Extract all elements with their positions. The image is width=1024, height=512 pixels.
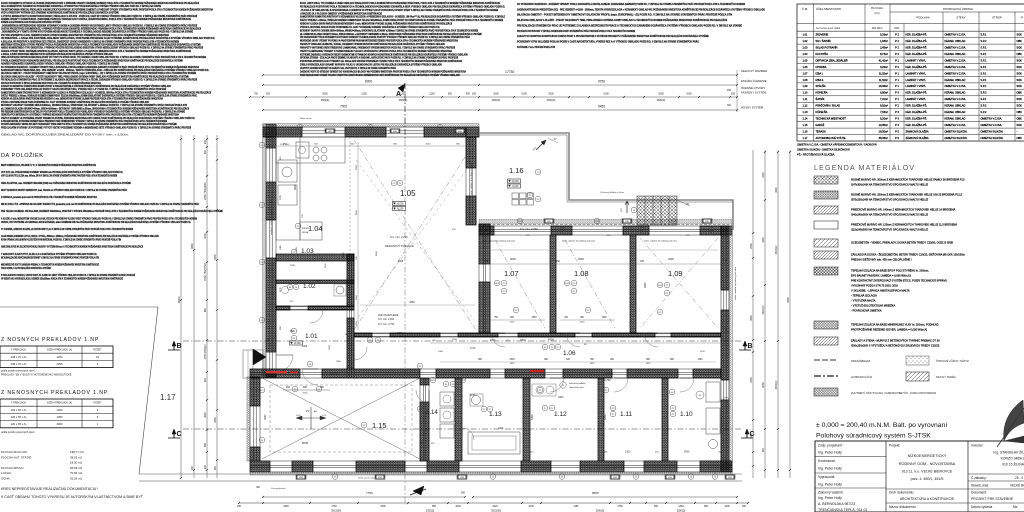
svg-text:OD DIGESTORA - o 125mm PRE ZAU: OD DIGESTORA - o 125mm PRE ZAUSTENIE AXI… — [1, 37, 215, 40]
svg-text:8800: 8800 — [191, 243, 194, 249]
svg-text:LAMINÁT / VINYL: LAMINÁT / VINYL — [906, 71, 927, 75]
svg-text:200: 200 — [266, 338, 271, 341]
svg-text:1.02: 1.02 — [303, 283, 316, 290]
svg-text:PODROBNY VYPIS SKLADIEB PODLAH: PODROBNY VYPIS SKLADIEB PODLAH POZRI V C… — [1, 88, 166, 91]
svg-text:VNE TELESO SCHIEDEL UNI Plus #: VNE TELESO SCHIEDEL UNI Plus #200, ROZME… — [1, 210, 223, 213]
svg-text:S.P.1: S.P.1 — [981, 78, 987, 82]
svg-text:238 x 70 x A): 238 x 70 x A) — [11, 362, 27, 366]
svg-text:198,77 m2: 198,77 m2 — [70, 450, 84, 454]
svg-text:S.V. min. 2,750: S.V. min. 2,750 — [390, 235, 408, 239]
svg-text:+0,000: +0,000 — [293, 343, 301, 345]
svg-text:2,05: 2,05 — [621, 207, 623, 212]
svg-text:200: 200 — [727, 89, 732, 92]
svg-text:3250: 3250 — [604, 414, 607, 420]
svg-text:OCEĽOBETÓN - VENIEC, PREKLADY,: OCEĽOBETÓN - VENIEC, PREKLADY, DOSKA BET… — [851, 240, 953, 245]
svg-text:1.08: 1.08 — [803, 78, 809, 82]
svg-text:S.P.1: S.P.1 — [981, 33, 987, 37]
svg-text:3200: 3200 — [668, 257, 674, 261]
svg-text:905: 905 — [280, 156, 282, 160]
svg-text:CISLO 021054, 1 Ks PRI REALIZÁ: CISLO 021054, 1 Ks PRI REALIZÁCII DODÁVA… — [1, 267, 51, 270]
svg-text:4300: 4300 — [548, 338, 554, 342]
svg-text:SVETLY PRIEREZ o 200mm, VONKAJ: SVETLY PRIEREZ o 200mm, VONKAJSI ROZMER … — [300, 19, 503, 22]
svg-text:SOK: SOK — [1017, 65, 1023, 69]
svg-text:STROP: STROP — [992, 16, 1002, 20]
svg-text:WC / ŠATNÍK: WC / ŠATNÍK — [816, 38, 832, 43]
svg-text:E CERPADLO, parametre pozri ca: E CERPADLO, parametre pozri cast UK PROF… — [1, 196, 97, 199]
svg-text:750: 750 — [494, 317, 499, 319]
svg-text:AUTOMOBILOVÉ STÁTIE: AUTOMOBILOVÉ STÁTIE — [816, 135, 846, 140]
svg-text:Ing. STANISLAV ŽIL: Ing. STANISLAV ŽIL — [993, 450, 1024, 455]
svg-text:K4: K4 — [671, 392, 674, 394]
svg-text:SOK: SOK — [1017, 45, 1023, 49]
svg-text:P9: P9 — [529, 195, 532, 197]
svg-text:S.P.1: S.P.1 — [981, 52, 987, 56]
svg-text:VANA PLASTOVA, max. ROZMERY 80: VANA PLASTOVA, max. ROZMERY 800x1800 (16… — [1, 182, 131, 185]
svg-text:56,53 m2: 56,53 m2 — [70, 466, 82, 470]
svg-text:VSETKY KLAMPIARSKE VYROBKY Z P: VSETKY KLAMPIARSKE VYROBKY Z POZINKOVANE… — [300, 50, 452, 53]
svg-text:PRI PRACI POSTUPOVAT V ZMYSLE: PRI PRACI POSTUPOVAT V ZMYSLE DODRZANIA … — [517, 30, 635, 33]
svg-text:1150: 1150 — [700, 351, 705, 353]
svg-text:4850: 4850 — [409, 301, 415, 304]
svg-text:580: 580 — [204, 442, 207, 447]
svg-text:900: 900 — [646, 359, 651, 361]
svg-text:955: 955 — [456, 144, 460, 146]
svg-text:ZÁKLADOVÁ DOSKA - ŽELEZOBETÓN,: ZÁKLADOVÁ DOSKA - ŽELEZOBETÓN, BETÓN TRI… — [851, 252, 965, 257]
svg-text:OMIETKA V.C./SA.: OMIETKA V.C./SA. — [945, 33, 967, 37]
svg-text:5,26m²: 5,26m² — [880, 33, 888, 37]
svg-text:1.12: 1.12 — [803, 104, 809, 108]
svg-text:SOK: SOK — [1017, 123, 1023, 127]
svg-text:70,84 m2: 70,84 m2 — [70, 471, 82, 475]
svg-text:700: 700 — [356, 256, 358, 260]
svg-text:VODY A PRESTUPY POTRUBI CEZ ST: VODY A PRESTUPY POTRUBI CEZ STAVEBNE KON… — [1, 12, 119, 15]
svg-text:PRIEČKOVÉ MURIVO HR. 115mm Z K: PRIEČKOVÉ MURIVO HR. 115mm Z KERAMICKÝCH… — [851, 222, 957, 227]
svg-text:(nahukové podlaha): (nahukové podlaha) — [569, 383, 586, 385]
svg-text:1000: 1000 — [455, 505, 461, 508]
svg-text:OBKLAD KUPELNE DOPORUCUJEM ZRE: OBKLAD KUPELNE DOPORUCUJEM ZREALIZOVAT D… — [1, 56, 206, 59]
svg-text:K2: K2 — [539, 390, 542, 392]
svg-text:GB: GB — [345, 334, 349, 336]
svg-text:25 - 0: 25 - 0 — [1015, 476, 1023, 480]
svg-text:2020: 2020 — [510, 363, 515, 365]
svg-text:BERIT COMBIFIX ECO, WC+BIDET 2: BERIT COMBIFIX ECO, WC+BIDET 2 V 1 A TEC… — [1, 164, 96, 167]
svg-text:800: 800 — [704, 505, 709, 508]
svg-text:DĹŽKA PREKLADU (A): DĹŽKA PREKLADU (A) — [47, 402, 72, 405]
svg-text:/375x250x249/ NA TENKOVRSTVÚ S: /375x250x249/ NA TENKOVRSTVÚ SPOJOVACIU … — [851, 197, 929, 202]
svg-text:3000: 3000 — [510, 257, 516, 261]
svg-text:1.10: 1.10 — [680, 411, 693, 418]
svg-text:2500: 2500 — [509, 359, 515, 361]
svg-text:POUZITE MATERIALY MUSIA SPLNAT: POUZITE MATERIALY MUSIA SPLNAT POZIADAVK… — [1, 123, 177, 126]
svg-text:elektr. radiátor do podlahy po: elektr. radiátor do podlahy pod okna — [470, 162, 473, 195]
svg-text:KP6: KP6 — [658, 285, 663, 287]
svg-text:1.12: 1.12 — [554, 411, 567, 418]
svg-text:P 5: P 5 — [895, 129, 899, 133]
svg-text:600: 600 — [566, 359, 571, 361]
svg-text:1,0%: 1,0% — [296, 415, 301, 417]
svg-text:2020: 2020 — [426, 144, 432, 146]
svg-text:OBÝVACIA IZBA_JEDÁLEŇ: OBÝVACIA IZBA_JEDÁLEŇ — [816, 58, 848, 62]
svg-text:2935: 2935 — [290, 265, 296, 267]
svg-text:KÚPEĽŇA: KÚPEĽŇA — [816, 90, 828, 95]
svg-text:200: 200 — [731, 93, 736, 96]
svg-text:PROTIPOŽIARNE RIEŠENIE ISOVER,: PROTIPOŽIARNE RIEŠENIE ISOVER, LAMBDA = … — [851, 327, 927, 332]
svg-text:P 2: P 2 — [895, 104, 899, 108]
svg-text:Ý PREKLADU: Ý PREKLADU — [11, 349, 26, 352]
svg-text:STENY: STENY — [956, 16, 965, 20]
svg-text:OBK: OBK — [1017, 110, 1023, 114]
svg-text:P2: P2 — [612, 408, 615, 410]
svg-text:4100: 4100 — [762, 237, 765, 243]
svg-text:2500: 2500 — [380, 505, 386, 508]
svg-text:OBK: OBK — [1017, 117, 1023, 121]
svg-text:OMIETKA V.C./SA.: OMIETKA V.C./SA. — [981, 123, 1003, 127]
svg-text:1920: 1920 — [492, 505, 498, 508]
svg-text:Názov dokumentu :: Názov dokumentu : — [889, 505, 917, 509]
svg-text:KOTVENIE ZABRADLI A DRZIAKOV R: KOTVENIE ZABRADLI A DRZIAKOV RIESIT CHEM… — [300, 53, 468, 56]
svg-text:PLOCHA-AUT. STÁTIE:: PLOCHA-AUT. STÁTIE: — [1, 455, 32, 459]
svg-text:-Úrovný dosiahn: -Úrovný dosiahn — [271, 487, 286, 490]
svg-text:OMIETKA V.C./SA.: OMIETKA V.C./SA. — [945, 123, 967, 127]
svg-text:500: 500 — [204, 377, 207, 382]
svg-text:1.11: 1.11 — [620, 411, 633, 418]
svg-text:9500: 9500 — [787, 297, 790, 303]
svg-text:PROJEKT PRE STAVEBNÉ: PROJEKT PRE STAVEBNÉ — [971, 496, 1014, 501]
svg-text:1.10: 1.10 — [803, 91, 809, 95]
svg-text:otočkový radiátor do podlahy p: otočkový radiátor do podlahy pod okno — [270, 198, 273, 235]
svg-text:OCHA:: OCHA: — [1, 477, 10, 481]
svg-text:PREKLADY "ZB x" BUDÚ VYHOTOVEN: PREKLADY "ZB x" BUDÚ VYHOTOVENÉ AKO MONO… — [1, 374, 72, 377]
svg-text:13: 13 — [561, 476, 564, 478]
svg-text:KP3: KP3 — [431, 380, 436, 382]
svg-text:SAMOSTATNY KOMIN TROJVRSTVOVY: SAMOSTATNY KOMIN TROJVRSTVOVY S KERAMICK… — [1, 91, 211, 94]
svg-text:OMIETKA SILIKÓN.: OMIETKA SILIKÓN. — [981, 128, 1004, 133]
svg-text:PŠ.- PROTIŠMYKOVÁ DLAŽBA: PŠ.- PROTIŠMYKOVÁ DLAŽBA — [797, 152, 835, 157]
svg-text:elektr. radiátor do podlahy po: elektr. radiátor do podlahy pod okno — [482, 240, 516, 243]
svg-text:OMIETKA V.C./SA.: OMIETKA V.C./SA. — [945, 65, 967, 69]
svg-text:KERAM. OBKLAD: KERAM. OBKLAD — [945, 91, 966, 95]
svg-text:. DOKUMENTACIA V TOMTO STUPNI: . DOKUMENTACIA V TOMTO STUPNI VYHOTOVENI… — [1, 31, 193, 34]
svg-text:D4: D4 — [295, 287, 298, 289]
svg-text:alt. ZAMKOVA DLAZBA HRUBKY=40m: alt. ZAMKOVA DLAZBA HRUBKY=40mm, SIRKA=1… — [1, 107, 189, 110]
svg-text:8000: 8000 — [365, 80, 372, 84]
svg-text:NNE MREZOVE ROSTY 10/30/1000 P: NNE MREZOVE ROSTY 10/30/1000 PREMAC A TE… — [1, 263, 99, 266]
svg-text:P2: P2 — [551, 408, 554, 410]
svg-text:LAMINÁT / VINYL: LAMINÁT / VINYL — [906, 58, 927, 62]
svg-text:ALNA BRANA HORMANN LPU 40, SIR: ALNA BRANA HORMANN LPU 40, SIRKA x VYSKA… — [1, 235, 159, 238]
svg-text:HYDROIZOLÁCIA: HYDROIZOLÁCIA — [851, 375, 872, 379]
svg-text:CELKOVÝ ROZMER: CELKOVÝ ROZMER — [741, 69, 767, 73]
svg-text:±0,000: ±0,000 — [511, 181, 519, 183]
svg-text:ÚČEL MIESTNOSTI: ÚČEL MIESTNOSTI — [816, 6, 841, 11]
svg-text:VYKONANÝ PODĽA STN 73 2901: 20: VYKONANÝ PODĽA STN 73 2901: 2019 — [851, 284, 899, 288]
svg-text:MIESTENIA VETRACIEHO OTVORU PR: MIESTENIA VETRACIEHO OTVORU PREVIEST POD… — [1, 43, 201, 46]
svg-text:PRI RIESENI KONSTRUKCNYCH DETA: PRI RIESENI KONSTRUKCNYCH DETAILOV POSTU… — [1, 110, 185, 113]
svg-text:8500: 8500 — [356, 209, 358, 215]
svg-text:alt. ZAMKOVA DLAZBA HRUBKY=40m: alt. ZAMKOVA DLAZBA HRUBKY=40mm, SIRKA=1… — [300, 33, 482, 36]
svg-text:3700: 3700 — [397, 332, 403, 335]
svg-text:115: 115 — [530, 452, 534, 454]
svg-text:P PODLAHOVOU DOSKOU, ODVOD VOD: P PODLAHOVOU DOSKOU, ODVOD VODY ZO ZLABU… — [1, 274, 135, 277]
svg-text:Staveb.úrad:: Staveb.úrad: — [971, 484, 989, 488]
svg-text:010 15 ŽILINA: 010 15 ŽILINA — [1002, 462, 1024, 467]
svg-text:Zodp. projektant:: Zodp. projektant: — [818, 444, 843, 448]
svg-text:7000: 7000 — [340, 105, 347, 109]
svg-text:FASADE OTVORY BUDU OPATRENE SP: FASADE OTVORY BUDU OPATRENE SPATNOU KLAP… — [1, 50, 191, 53]
svg-text:elektr. radiátor do podlahy po: elektr. radiátor do podlahy pod okno — [734, 266, 737, 300]
svg-text:POVRCHOVÁ ÚPRAVA: POVRCHOVÁ ÚPRAVA — [943, 6, 973, 11]
svg-text:A VLOZKA O min. MENOVITOM VYKO: A VLOZKA O min. MENOVITOM VYKONE 10,5 kW… — [1, 217, 197, 220]
svg-text:KER. DLAŽBA-PŠ.: KER. DLAŽBA-PŠ. — [906, 38, 928, 43]
svg-text:Dokument:: Dokument: — [971, 491, 987, 495]
svg-text:150: 150 — [356, 321, 358, 325]
svg-text:1.15: 1.15 — [372, 421, 387, 430]
svg-text:bez terasy a aut. státia: bez terasy a aut. státia — [816, 27, 841, 30]
svg-text:11: 11 — [334, 476, 337, 478]
svg-text:PRI OSADZOVANI VYPLNI STAVEBNY: PRI OSADZOVANI VYPLNI STAVEBNYCH OTVOROV… — [300, 36, 470, 39]
svg-text:2500(E): 2500(E) — [775, 245, 778, 254]
svg-text:300: 300 — [727, 104, 732, 107]
svg-text:115: 115 — [420, 442, 424, 445]
svg-text:913 11, k.u. VEĽKÉ BIEROVCE: 913 11, k.u. VEĽKÉ BIEROVCE — [902, 469, 953, 474]
svg-text:SVETLY PRIEREZ o 200mm, VONKAJ: SVETLY PRIEREZ o 200mm, VONKAJSI ROZMER … — [1, 95, 197, 98]
svg-text:O9: O9 — [261, 390, 265, 392]
svg-text:9750: 9750 — [598, 80, 605, 84]
svg-text:1000: 1000 — [438, 351, 444, 353]
svg-text:LAMINÁT / VINYL: LAMINÁT / VINYL — [906, 78, 927, 82]
svg-text:200: 200 — [214, 465, 217, 470]
svg-text:KP6: KP6 — [495, 283, 500, 285]
svg-text:TECHNICKÁ MIESTNOSŤ: TECHNICKÁ MIESTNOSŤ — [816, 116, 847, 121]
svg-text:(m²): (m²) — [874, 11, 879, 15]
svg-text:ZHUTNENÝ NÁSYP HLINA, KAMENIVO: ZHUTNENÝ NÁSYP HLINA, KAMENIVO/BETÓN - P… — [851, 390, 937, 395]
svg-text:KUCHYŇA: KUCHYŇA — [816, 52, 829, 56]
svg-text:115: 115 — [604, 452, 608, 454]
svg-text:PAROZÁBRANA: PAROZÁBRANA — [851, 359, 871, 363]
svg-text:S.P.1: S.P.1 — [981, 65, 987, 69]
svg-text:11,52m²: 11,52m² — [879, 71, 888, 75]
svg-text:120 x 65 x A): 120 x 65 x A) — [11, 408, 27, 412]
svg-text:KERAM. OBKLAD: KERAM. OBKLAD — [945, 78, 966, 82]
svg-text:P2: P2 — [393, 183, 396, 185]
svg-text:P2: P2 — [483, 409, 486, 411]
svg-text:3710: 3710 — [470, 347, 476, 350]
svg-text:DILATACIA OBKLADOV A DLAZBY -: DILATACIA OBKLADOV A DLAZBY - POUZIT SIL… — [517, 19, 727, 22]
svg-text:P1: P1 — [503, 283, 506, 285]
svg-text:OMIETKA V.C./SA.: OMIETKA V.C./SA. — [945, 84, 967, 88]
svg-text:2,750: 2,750 — [604, 378, 611, 382]
svg-text:2500(D): 2500(D) — [657, 99, 666, 102]
svg-text:900: 900 — [610, 359, 615, 361]
svg-text:2020: 2020 — [303, 393, 309, 395]
svg-text:1700: 1700 — [331, 505, 337, 508]
svg-text:2: 2 — [97, 408, 99, 412]
svg-text:OBK: OBK — [1017, 91, 1023, 95]
svg-text:PRIEČKOVÉ MURIVO HR. 140mm Z K: PRIEČKOVÉ MURIVO HR. 140mm Z KERAMICKÝCH… — [851, 207, 956, 212]
svg-text:2500: 2500 — [356, 164, 358, 170]
svg-text:SKLAD POTRAVÍN: SKLAD POTRAVÍN — [816, 45, 838, 49]
svg-text:2020: 2020 — [510, 322, 516, 324]
svg-text:P4: P4 — [363, 425, 366, 427]
svg-text:S.P.2: S.P.2 — [981, 104, 987, 108]
svg-text:KERAM. OBKLAD: KERAM. OBKLAD — [945, 117, 966, 121]
svg-text:3250: 3250 — [750, 315, 753, 321]
svg-text:3050: 3050 — [531, 414, 534, 420]
svg-text:ŠTRKOVÉ LÔŽKO / NÁSYP: ŠTRKOVÉ LÔŽKO / NÁSYP — [936, 358, 969, 363]
svg-text:2020: 2020 — [325, 263, 327, 268]
svg-text:NOVY RADIATOR ROVNY REBRIKOVY,: NOVY RADIATOR ROVNY REBRIKOVY, max. 50x1… — [1, 189, 127, 192]
svg-text:Projekt:: Projekt: — [889, 444, 900, 448]
svg-text:KERAM. OBKLAD: KERAM. OBKLAD — [945, 52, 966, 56]
svg-text:Investor:: Investor: — [971, 444, 984, 448]
svg-text:1800: 1800 — [558, 396, 564, 399]
svg-text:ODLA KONKRETNYCH TECHNICKYCH P: ODLA KONKRETNYCH TECHNICKYCH POZIADAVIEK… — [1, 5, 161, 8]
svg-text:1750 2500(E): 1750 2500(E) — [204, 344, 207, 359]
svg-text:- TEPELNÁ IZOLÁCIA: - TEPELNÁ IZOLÁCIA — [851, 294, 877, 298]
svg-text:IZBA I.: IZBA I. — [816, 71, 824, 75]
svg-text:SOK: SOK — [1017, 78, 1023, 82]
svg-text:S.P.2: S.P.2 — [981, 91, 987, 95]
svg-text:150: 150 — [432, 340, 436, 342]
svg-text:P 2: P 2 — [895, 65, 899, 69]
svg-text:Č.M.: Č.M. — [802, 6, 808, 11]
svg-text:NIK NA VODU, TUV + PRIPRAVA NA: NIK NA VODU, TUV + PRIPRAVA NA SOLARNY D… — [1, 203, 199, 206]
svg-text:Ing. Peter Hollý: Ing. Peter Hollý — [818, 451, 842, 455]
svg-text:Z NENOSNÝCH PREKLADOV 1.NP: Z NENOSNÝCH PREKLADOV 1.NP — [1, 389, 108, 396]
svg-text:S.P.1: S.P.1 — [981, 97, 987, 101]
svg-text:. DOKUMENTACIA INTERIEROVEHO R: . DOKUMENTACIA INTERIEROVEHO RIESENIA VS… — [1, 24, 197, 27]
svg-text:OMIETKA V.C./SA.- OMIETKA VÁPE: OMIETKA V.C./SA.- OMIETKA VÁPENNOCEMENTO… — [797, 143, 877, 147]
svg-text:150: 150 — [556, 260, 561, 263]
svg-text:1000: 1000 — [603, 93, 609, 96]
svg-text:1.01: 1.01 — [305, 333, 318, 340]
svg-text:1.15: 1.15 — [803, 123, 809, 127]
svg-text:VEĽKÉ BIE: VEĽKÉ BIE — [1010, 483, 1024, 488]
svg-text:900: 900 — [286, 386, 291, 389]
svg-text:3050: 3050 — [762, 382, 765, 388]
svg-text:KRBOVA VLOZKA /DRUH INVESTOROM: KRBOVA VLOZKA /DRUH INVESTOROM NEUVEDENY… — [300, 23, 452, 26]
svg-text:2500: 2500 — [452, 339, 458, 341]
svg-text:18,50m²: 18,50m² — [879, 129, 888, 133]
svg-text:1.11: 1.11 — [803, 97, 808, 101]
svg-text:850: 850 — [303, 386, 308, 389]
svg-text:150: 150 — [640, 260, 645, 263]
svg-text:OMIETKA SILIKÓN.- OMIETKA SILI: OMIETKA SILIKÓN.- OMIETKA SILIKÓNOVÁ — [797, 147, 850, 152]
svg-text:ZACIOU STAVEBNYCH OTVOROV JE V: ZACIOU STAVEBNYCH OTVOROV JE VHODNE PREK… — [1, 2, 199, 5]
svg-text:Ý PREKLADU: Ý PREKLADU — [11, 402, 26, 405]
svg-text:2100: 2100 — [625, 451, 631, 454]
svg-text:ZÁKLADY A STENA - MURIVO Z BET: ZÁKLADY A STENA - MURIVO Z BETÓNOVÝCH TV… — [851, 338, 940, 343]
svg-text:KP3: KP3 — [461, 380, 466, 382]
svg-text:8,74m²: 8,74m² — [880, 52, 888, 56]
svg-text:NOSNÝ SYSTÉM: NOSNÝ SYSTÉM — [741, 105, 764, 110]
svg-text:PV: PV — [306, 409, 310, 413]
svg-text:300: 300 — [256, 487, 261, 489]
svg-text:podľa puzdro posuvných dverí: podľa puzdro posuvných dverí — [1, 431, 35, 434]
svg-text:CHODBA: CHODBA — [816, 65, 827, 69]
svg-text:KER. DLAŽBA-PŠ.: KER. DLAŽBA-PŠ. — [906, 90, 928, 95]
svg-text:/115x249x500/ NA TENKOVRSTVÚ S: /115x249x500/ NA TENKOVRSTVÚ SPOJOVACIU … — [851, 227, 928, 232]
svg-text:VSETKY ROZMERY JE POTREBNE OVE: VSETKY ROZMERY JE POTREBNE OVERIT PRIAMO… — [1, 117, 195, 120]
svg-text:2500(D): 2500(D) — [547, 99, 556, 102]
svg-text:P 2: P 2 — [895, 33, 899, 37]
svg-text:250: 250 — [484, 260, 489, 263]
svg-text:1.17: 1.17 — [160, 393, 176, 402]
svg-text:1920: 1920 — [498, 427, 504, 430]
svg-text:1250: 1250 — [429, 93, 435, 96]
svg-text:PRED REALIZACIOU OVERIT POLOHU: PRED REALIZACIOU OVERIT POLOHU VSETKYCH … — [300, 74, 460, 77]
svg-text:OKENNÉ OTVORY: OKENNÉ OTVORY — [741, 85, 765, 90]
svg-text:DA POLOŽIEK: DA POLOŽIEK — [1, 151, 44, 159]
svg-text:1500: 1500 — [750, 377, 753, 383]
svg-text:podľa puzdro posuvných dverí: podľa puzdro posuvných dverí — [1, 370, 35, 373]
svg-text:DĹŽKA PREKLADU (A): DĹŽKA PREKLADU (A) — [47, 349, 72, 352]
svg-text:SPODNA STAVBA - IZOLACIA PROTI: SPODNA STAVBA - IZOLACIA PROTI ZEMNEJ VL… — [300, 57, 458, 60]
svg-text:NOSNÉ MURIVO HR. 300mm Z KERAM: NOSNÉ MURIVO HR. 300mm Z KERAMICKÝCH TVA… — [851, 177, 965, 182]
svg-text:KP6: KP6 — [565, 283, 570, 285]
svg-text:600: 600 — [204, 307, 207, 312]
svg-text:1.14: 1.14 — [803, 117, 809, 121]
svg-text:BETONOVY OKAPOVY CHODNIK SIRKA: BETONOVY OKAPOVY CHODNIK SIRKA=1000mm, H… — [300, 29, 478, 32]
svg-text:POČET: POČET — [93, 402, 102, 405]
svg-text:1.13: 1.13 — [489, 411, 502, 418]
svg-text:3250: 3250 — [214, 417, 217, 423]
svg-text:38,03m²: 38,03m² — [879, 136, 888, 140]
svg-text:-0,250: -0,250 — [397, 209, 404, 211]
svg-text:-: - — [1017, 130, 1018, 133]
svg-text:TEPELNÁ IZOLÁCIA NA BÁZE MINER: TEPELNÁ IZOLÁCIA NA BÁZE MINERÁLNEJ VLNY… — [851, 323, 939, 327]
svg-text:/500x250x300/ S VÝSTUŽOU A BET: /500x250x300/ S VÝSTUŽOU A BETÓNOVOU ZÁL… — [851, 343, 940, 348]
svg-text:KER. DLAŽBA-PŠ.: KER. DLAŽBA-PŠ. — [906, 51, 928, 56]
svg-text:OMIETKA V.C./SA.: OMIETKA V.C./SA. — [981, 117, 1003, 121]
svg-text:1.09: 1.09 — [803, 84, 809, 88]
svg-text:SO VSTAVANOU NADRZKOU - ROZMER: SO VSTAVANOU NADRZKOU - ROZMERY UPRAVIT … — [1, 66, 199, 69]
svg-text:IZBA II.: IZBA II. — [816, 78, 825, 82]
svg-text:ZVISLU HYDROIZOLACIU CHRANIT N: ZVISLU HYDROIZOLACIU CHRANIT NOPOVOU FOL… — [300, 64, 442, 67]
svg-text:1350: 1350 — [678, 505, 684, 508]
svg-text:900: 900 — [393, 144, 397, 146]
svg-text:600: 600 — [314, 144, 318, 146]
svg-text:150: 150 — [655, 452, 659, 454]
svg-text:PRI REALIZACII STAVEBNYCH PRAC: PRI REALIZACII STAVEBNYCH PRAC JE POTREB… — [1, 79, 197, 82]
svg-text:K ČASŤ OBSAHU TOHOTO VÝKRESU J: K ČASŤ OBSAHU TOHOTO VÝKRESU JE AUTORSKÝ… — [1, 494, 144, 499]
svg-text:1350: 1350 — [531, 317, 537, 319]
svg-text:FIX: FIX — [607, 235, 611, 237]
svg-text:2050: 2050 — [684, 451, 690, 454]
svg-text:1: 1 — [97, 422, 99, 426]
svg-text:1.0: 1.0 — [537, 172, 541, 174]
svg-text:P 2: P 2 — [895, 45, 899, 49]
svg-text:Rešte väzne: Rešte väzne — [300, 117, 312, 120]
svg-text:7,01m²: 7,01m² — [880, 97, 888, 101]
svg-text:1900: 1900 — [302, 346, 308, 348]
svg-text:18,06m²: 18,06m² — [879, 84, 888, 88]
svg-text:RASTLÝ TERÉN: RASTLÝ TERÉN — [936, 374, 956, 379]
svg-text:1250: 1250 — [400, 93, 406, 96]
svg-text:16: 16 — [714, 476, 717, 478]
svg-text:P 1: P 1 — [895, 71, 899, 75]
svg-text:CASTOU PROJEKTOVEJ DOKUMENTACI: CASTOU PROJEKTOVEJ DOKUMENTACIE, V PRIPA… — [1, 28, 201, 31]
svg-text:TIM BETONOVANIA VENCOV, PREVLA: TIM BETONOVANIA VENCOV, PREVLAKOV A MONO… — [1, 8, 213, 11]
svg-text:5,20m²: 5,20m² — [880, 117, 888, 121]
svg-text:A. BERNOLÁKA 987/23: A. BERNOLÁKA 987/23 — [818, 502, 855, 506]
svg-text:1.03: 1.03 — [301, 248, 314, 255]
svg-text:550: 550 — [466, 93, 471, 96]
svg-text:2500: 2500 — [329, 344, 331, 350]
svg-text:2500: 2500 — [350, 144, 356, 146]
svg-text:LEGENDA MATERIÁLOV: LEGENDA MATERIÁLOV — [814, 163, 915, 172]
svg-text:KURENIE A ELEKTROINSTALACIA PR: KURENIE A ELEKTROINSTALACIA PRI REALIZÁC… — [1, 21, 61, 24]
